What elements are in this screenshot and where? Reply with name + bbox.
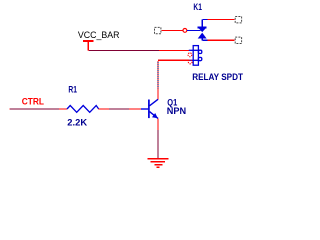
resistor R1 <box>59 106 109 113</box>
coil pin circle 1 <box>188 53 192 57</box>
contact NO arrow (up) <box>198 33 208 41</box>
wire common to circle <box>161 29 182 31</box>
svg-text:VCC_BAR: VCC_BAR <box>78 29 120 40</box>
contact NC arrow (down) <box>197 20 206 33</box>
wire collector riser to relay coil pin 2 <box>158 60 189 99</box>
node open circle <box>183 29 187 33</box>
svg-text:R1: R1 <box>68 85 77 95</box>
svg-text:NPN: NPN <box>167 106 186 116</box>
svg-text:2.2K: 2.2K <box>67 118 87 128</box>
relay coil body <box>189 46 202 66</box>
wire emitter to ground <box>157 118 159 158</box>
svg-text:K1: K1 <box>193 1 202 12</box>
pin square top <box>235 17 241 23</box>
relay K1 contact: pin square common <box>155 27 161 33</box>
ground <box>148 159 169 168</box>
coil pin circle 2 <box>188 60 192 64</box>
wire CTRL net horizontal <box>10 108 60 110</box>
svg-text:CTRL: CTRL <box>22 96 45 106</box>
transistor Q1 <box>141 99 158 118</box>
power symbol VCC_BAR <box>83 41 93 50</box>
svg-text:RELAY SPDT: RELAY SPDT <box>192 72 243 82</box>
contact arm <box>187 29 200 31</box>
wire top contact <box>202 19 234 21</box>
wire VCC_BAR to relay coil pin 1 <box>88 49 189 51</box>
pin square bottom <box>235 37 241 43</box>
wire resistor to transistor base <box>109 108 141 110</box>
wire bottom contact <box>207 39 234 41</box>
